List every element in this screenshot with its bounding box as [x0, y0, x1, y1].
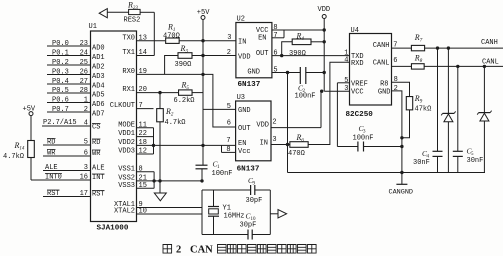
IC U4 82C250 CAN transceiver body	[350, 34, 392, 106]
svg-text:CLKOUT: CLKOUT	[110, 102, 135, 110]
svg-text:8: 8	[226, 146, 230, 154]
svg-text:27: 27	[80, 78, 88, 86]
svg-text:GND: GND	[247, 69, 260, 77]
wire crystal loop bottom rail	[202, 234, 248, 236]
node R4 on OUT line	[280, 54, 283, 57]
wire CANH down to C4	[437, 48, 439, 151]
capacitor C3 100nF on VREF	[357, 142, 359, 152]
optocoupler U3 6N137 receive body	[236, 101, 271, 161]
crystal Y1 16MHz	[213, 190, 215, 207]
wire U4 pin 8 Rs to R9	[392, 82, 410, 96]
wire U3 pin 2 VDD line	[271, 127, 321, 129]
svg-text:Y1: Y1	[223, 205, 231, 213]
node D1 tap on CANH	[447, 46, 450, 49]
svg-text:82C250: 82C250	[346, 111, 374, 119]
svg-text:100nF: 100nF	[212, 170, 233, 178]
wire C1 to ground line	[201, 169, 203, 181]
caption figure 2 CAN bus interface circuit title	[163, 245, 172, 254]
svg-text:P2.7/A15: P2.7/A15	[43, 119, 77, 127]
svg-text:VSS3: VSS3	[118, 182, 135, 190]
svg-text:3: 3	[272, 136, 276, 144]
wire C10 to loop corner	[252, 234, 270, 236]
svg-text:AD5: AD5	[92, 92, 105, 100]
resistor R7 on CANH	[411, 45, 424, 50]
svg-text:RST: RST	[47, 190, 60, 198]
svg-text:2: 2	[394, 85, 398, 93]
wire +5V to resistor R14	[30, 116, 32, 141]
wire U1 pin 1 P0.6 to AD6	[47, 102, 91, 104]
svg-text:P0.7: P0.7	[52, 106, 69, 114]
node VDD at R4	[323, 40, 326, 43]
svg-text:RST: RST	[92, 191, 105, 199]
svg-text:8: 8	[394, 76, 398, 84]
svg-text:CANGND: CANGND	[389, 188, 413, 196]
svg-text:VDD3: VDD3	[118, 148, 135, 156]
svg-text:10: 10	[139, 208, 147, 216]
svg-text:30nF: 30nF	[413, 159, 430, 167]
svg-text:RD: RD	[92, 139, 100, 147]
svg-text:1: 1	[84, 96, 88, 104]
wire R4 right lead to VDD rail	[311, 41, 324, 43]
node C5 tap on CANL	[456, 65, 459, 68]
wire VDD bus vertical	[153, 128, 155, 154]
wire R4 left lead to OUT line	[282, 42, 293, 56]
wire U1 pin 11 MODE	[137, 127, 154, 129]
wire CANL down to diode D2	[483, 66, 485, 112]
svg-text:6: 6	[393, 57, 397, 65]
svg-text:VCC: VCC	[256, 27, 269, 35]
wire R23 to input arrow	[107, 11, 128, 13]
svg-text:RX0: RX0	[122, 68, 135, 76]
wire R2 to ground line	[159, 122, 161, 181]
svg-text:6N137: 6N137	[237, 165, 260, 173]
svg-text:CANH: CANH	[373, 42, 390, 50]
wire U2 pin 6 OUT to U4 TXD	[272, 55, 350, 57]
svg-text:11: 11	[139, 121, 147, 129]
svg-text:EN: EN	[238, 140, 246, 148]
svg-text:7: 7	[226, 137, 230, 145]
svg-text:INT0: INT0	[45, 174, 62, 182]
svg-text:6: 6	[273, 49, 277, 57]
svg-text:VDD: VDD	[256, 121, 269, 129]
wire U1 pin 7 CLKOUT stub	[137, 108, 154, 110]
svg-text:30pF: 30pF	[246, 197, 263, 205]
svg-text:VDD: VDD	[238, 54, 251, 62]
wire U1 pin 23 P0.0 to AD0	[47, 45, 91, 47]
svg-text:TX0: TX0	[122, 34, 135, 42]
svg-text:23: 23	[80, 40, 88, 48]
svg-text:2: 2	[176, 245, 181, 256]
svg-text:6: 6	[227, 120, 231, 128]
svg-text:100nF: 100nF	[295, 92, 316, 100]
node VDD bus to +5V line	[152, 144, 155, 147]
svg-text:390Ω: 390Ω	[175, 61, 192, 69]
resistor R9 47k slope control	[406, 97, 412, 110]
svg-text:IN: IN	[238, 39, 246, 47]
svg-text:Vcc: Vcc	[238, 148, 251, 156]
wire crystal loop left vertical	[201, 190, 203, 235]
wire RX0 junction to U3 OUT pin 6	[203, 74, 236, 127]
svg-text:CS: CS	[92, 124, 100, 132]
diode D1 transient protection	[443, 112, 455, 114]
optocoupler U2 6N137 transmit body	[236, 23, 272, 78]
svg-text:INT: INT	[92, 174, 105, 182]
svg-text:3: 3	[227, 34, 231, 42]
node VDD at U2 VCC line	[323, 28, 326, 31]
svg-text:18: 18	[139, 139, 147, 147]
wire U1 pin 13 TX0 line to opto U2 input	[137, 40, 166, 42]
resistor R6 470 ohm in receive path	[290, 142, 308, 148]
svg-text:AD7: AD7	[92, 111, 105, 119]
wire U1 pin 20 RX1 line	[137, 92, 179, 94]
wire R3 to U2 pin 2 VDD	[192, 55, 236, 57]
svg-text:AD6: AD6	[92, 101, 105, 109]
wire CANL down to C5	[457, 66, 459, 151]
svg-text:17: 17	[80, 190, 88, 198]
arrow oscillator direction symbol	[270, 213, 278, 215]
svg-text:16MHz: 16MHz	[224, 213, 245, 221]
wire CANGND rail	[288, 172, 486, 174]
diode D2 transient protection	[479, 112, 491, 114]
svg-text:6: 6	[84, 150, 88, 158]
wire U1 pin 18 VDD2 to +5V and U3 EN	[137, 144, 236, 146]
capacitor C9 30pF	[250, 185, 252, 195]
wire U1 pin 17 RST reset	[43, 196, 91, 198]
resistor R23 RES2 on TX1 line	[129, 9, 141, 14]
svg-text:OUT: OUT	[238, 125, 251, 133]
wire VSS bus vertical	[153, 172, 155, 189]
svg-text:26: 26	[80, 68, 88, 76]
svg-text:VDD1: VDD1	[118, 130, 135, 138]
svg-text:16: 16	[80, 174, 88, 182]
svg-text:VSS1: VSS1	[118, 165, 135, 173]
svg-text:4.7kΩ: 4.7kΩ	[165, 119, 186, 127]
svg-text:19: 19	[139, 68, 147, 76]
wire crystal loop right vertical	[269, 190, 271, 235]
wire U1 pin 3 ALE	[43, 170, 91, 172]
svg-text:8: 8	[139, 165, 143, 173]
svg-text:P0.1: P0.1	[52, 49, 69, 57]
node VDD at C2	[323, 71, 326, 74]
capacitor C5 30nF	[453, 150, 463, 152]
wire U1 pin 4 P2.7/A15 chip-select	[42, 125, 91, 127]
svg-text:2: 2	[84, 106, 88, 114]
svg-text:6N137: 6N137	[238, 81, 261, 89]
svg-text:P0.2: P0.2	[52, 59, 69, 67]
svg-text:AD2: AD2	[92, 64, 105, 72]
svg-text:5: 5	[84, 139, 88, 147]
svg-text:4: 4	[84, 120, 88, 128]
wire U1 pin 21 VSS2 ground line	[137, 180, 204, 182]
svg-text:7: 7	[273, 32, 277, 40]
wire U1 pin 26 P0.3 to AD3	[47, 74, 91, 76]
wire R5 to rail	[192, 92, 203, 94]
svg-text:GND: GND	[238, 107, 251, 115]
svg-text:13: 13	[139, 34, 147, 42]
svg-text:24: 24	[80, 49, 88, 57]
resistor R2 4.7k divider lower leg	[157, 109, 164, 122]
wire U4 pin 5 VREF to C3	[337, 82, 349, 84]
wire D2 to rail	[483, 121, 485, 173]
svg-text:P0.3: P0.3	[52, 68, 69, 76]
svg-text:EN: EN	[258, 35, 266, 43]
svg-text:470Ω: 470Ω	[288, 150, 305, 158]
svg-text:ALE: ALE	[45, 164, 58, 172]
wire VDD rail vertical	[323, 19, 325, 92]
svg-text:GND: GND	[378, 88, 391, 96]
wire U1 pin 6 WR strobe	[43, 155, 91, 157]
svg-text:30nF: 30nF	[467, 157, 484, 165]
wire crystal loop top rail	[202, 189, 251, 191]
node RX1 divider tap	[158, 91, 161, 94]
svg-text:IN: IN	[260, 139, 268, 147]
svg-text:28: 28	[80, 87, 88, 95]
CANGND terminal stub	[401, 173, 403, 185]
svg-text:4.7kΩ: 4.7kΩ	[3, 153, 24, 161]
capacitor C2 100nF	[299, 67, 301, 84]
wire U2 pin 5 GND2	[272, 72, 300, 74]
svg-text:4: 4	[344, 56, 348, 64]
resistor R14 4.7k pull-up on INT0	[28, 141, 35, 158]
svg-text:U3: U3	[237, 94, 245, 102]
svg-text:AD1: AD1	[92, 54, 105, 62]
wire R3 left lead down to RX0	[165, 56, 178, 75]
wire U3 EN/Vcc tie vertical to ground line	[221, 145, 223, 152]
wire U2 pin 7 EN tied to VCC	[272, 37, 284, 39]
wire VREF to C3 left plate	[337, 146, 358, 148]
svg-text:VCC: VCC	[351, 89, 364, 97]
wire VDD to U4 VCC pin 3	[324, 90, 349, 92]
svg-text:P0.0: P0.0	[52, 40, 69, 48]
svg-text:MODE: MODE	[118, 121, 135, 129]
wire U1 pin 2 P0.7 to AD7	[47, 111, 91, 113]
wire C2 to VDD rail	[306, 72, 324, 74]
svg-text:RES2: RES2	[124, 17, 141, 25]
wire RX1 tap down to R2	[159, 93, 161, 109]
wire R8 to CANL terminal	[424, 65, 503, 67]
svg-text:AD0: AD0	[92, 45, 105, 53]
svg-text:U4: U4	[351, 27, 359, 35]
ground symbol	[159, 181, 161, 193]
svg-text:14: 14	[139, 49, 147, 57]
svg-text:AD3: AD3	[92, 73, 105, 81]
svg-text:25: 25	[80, 59, 88, 67]
wire U3 VDD branch vertical	[320, 91, 322, 127]
wire C3 right plate to GND drop	[364, 146, 402, 148]
node rail at R3/U2 VDD line	[201, 54, 204, 57]
svg-text:U1: U1	[89, 23, 97, 31]
svg-text:P0.5: P0.5	[52, 87, 69, 95]
svg-text:CAN: CAN	[190, 245, 213, 256]
svg-text:30pF: 30pF	[240, 222, 257, 230]
resistor R3 390 ohm	[178, 53, 192, 59]
svg-text:5: 5	[273, 66, 277, 74]
svg-text:RD: RD	[47, 139, 55, 147]
svg-text:RX1: RX1	[122, 86, 135, 94]
wire R7 to CANH terminal	[425, 47, 503, 49]
wire U1 pin 16 INT0 interrupt	[31, 179, 91, 181]
wire U4 pin 2 GND down to CANGND rail	[392, 91, 402, 173]
svg-text:3: 3	[344, 85, 348, 93]
svg-text:6.2kΩ: 6.2kΩ	[174, 97, 195, 105]
svg-text:100nF: 100nF	[353, 135, 374, 143]
wire R14 to INT0 line	[30, 158, 32, 181]
wire R9 down to GND branch	[402, 110, 410, 138]
svg-text:ALE: ALE	[92, 165, 105, 173]
svg-text:20: 20	[139, 86, 147, 94]
wire U4 pin 6 CANL	[392, 65, 412, 67]
wire CANH down to diode D1	[447, 48, 449, 113]
wire U1 pin 14 TX1 up to RES2	[137, 55, 155, 57]
node C4 tap on CANH	[436, 46, 439, 49]
node C1 on ground line	[200, 179, 203, 182]
svg-text:WR: WR	[92, 150, 101, 158]
wire U1 pin 24 P0.1 to AD1	[47, 55, 91, 57]
svg-text:TX1: TX1	[122, 49, 135, 57]
resistor R8 on CANL	[411, 64, 424, 69]
svg-text:U2: U2	[237, 16, 245, 24]
wire U4 pin 7 CANH	[392, 47, 412, 49]
wire U1 pin 10 XTAL2	[137, 213, 203, 215]
svg-text:OUT: OUT	[256, 50, 269, 58]
svg-text:2: 2	[272, 119, 276, 127]
wire R6 up to U4 RXD	[308, 62, 349, 144]
svg-text:2: 2	[227, 49, 231, 57]
wire U1 pin 19 RX0 line	[137, 73, 204, 75]
wire C5 to rail	[457, 156, 459, 172]
svg-text:15: 15	[139, 182, 147, 190]
node TX0/+5V rail junction	[201, 39, 204, 42]
svg-text:CANL: CANL	[373, 60, 390, 68]
wire U1 pin 12 VDD3	[137, 153, 154, 155]
wire +5V rail vertical	[202, 20, 204, 166]
wire U3 pin 5 GND to rail	[203, 108, 236, 110]
svg-text:VDD2: VDD2	[118, 139, 135, 147]
wire U2 pin 8 VCC to VDD rail	[272, 29, 324, 31]
svg-text:AD4: AD4	[92, 83, 105, 91]
arrow input buffer symbol pointing left	[99, 9, 107, 18]
resistor R1 470 ohm in TX0 line	[166, 38, 180, 43]
node C3 on GND drop	[400, 145, 403, 148]
wire U1 pin 8 VSS1	[137, 171, 155, 173]
svg-text:47kΩ: 47kΩ	[415, 106, 432, 114]
node RX0 rail junction	[201, 73, 204, 76]
svg-text:WR: WR	[47, 150, 56, 158]
capacitor C1 100nF decoupling	[196, 164, 208, 166]
wire U1 pin 25 P0.2 to AD2	[47, 64, 91, 66]
node CANGND stub	[400, 171, 403, 174]
svg-text:SJA1000: SJA1000	[97, 225, 129, 233]
svg-text:XTAL2: XTAL2	[114, 208, 135, 216]
svg-text:470Ω: 470Ω	[163, 33, 180, 41]
node VSS bus on ground line	[152, 179, 155, 182]
node R9 on GND drop	[400, 136, 403, 139]
wire R1 to U2 pin 3	[179, 40, 236, 42]
wire GND2 down to CANGND rail	[287, 73, 289, 173]
resistor R4 390 ohm pull-up on U2 OUT	[292, 39, 311, 45]
wire D1 to rail	[447, 122, 449, 173]
wire U1 pin 28 P0.5 to AD5	[47, 92, 91, 94]
wire U1 pin 5 RD strobe	[43, 144, 91, 146]
node GND2 branch	[286, 71, 289, 74]
svg-text:VDD: VDD	[318, 6, 331, 14]
node IN junction with GND2 vertical	[286, 143, 289, 146]
svg-text:8: 8	[273, 24, 277, 32]
svg-text:3: 3	[84, 164, 88, 172]
capacitor C4 30nF	[433, 150, 443, 152]
node D2 tap on CANL	[483, 65, 486, 68]
wire U1 pin 15 VSS3	[137, 187, 155, 189]
svg-text:CANH: CANH	[481, 39, 498, 47]
wire U3 pin 3 IN line	[271, 144, 290, 146]
wire C4 to rail	[437, 156, 439, 172]
svg-text:P0.4: P0.4	[52, 78, 69, 86]
svg-text:22: 22	[139, 130, 147, 138]
svg-text:5: 5	[344, 77, 348, 85]
IC U1 SJA1000 microcontroller-side CAN controller body	[91, 31, 137, 222]
wire U1 pin 22 VDD1	[137, 136, 154, 138]
resistor R5 6.2k in RX1 bias divider	[179, 90, 193, 95]
svg-text:12: 12	[139, 148, 147, 156]
svg-text:390Ω: 390Ω	[289, 50, 306, 58]
node VDD VCC U3 branch	[320, 90, 323, 93]
wire U1 pin 9 XTAL1	[137, 207, 203, 209]
node +5V rail to VDD/EN line	[201, 144, 204, 147]
wire C9 to loop corner	[255, 189, 270, 191]
node R2 leg on ground line	[158, 179, 161, 182]
svg-text:RXD: RXD	[351, 60, 364, 68]
svg-text:VREF: VREF	[351, 80, 368, 88]
wire U1 pin 27 P0.4 to AD4	[47, 83, 91, 85]
svg-text:P0.6: P0.6	[52, 96, 69, 104]
capacitor C10 30pF	[247, 230, 249, 240]
wire U3 pin 8 Vcc	[222, 151, 236, 153]
svg-text:7: 7	[139, 102, 143, 110]
